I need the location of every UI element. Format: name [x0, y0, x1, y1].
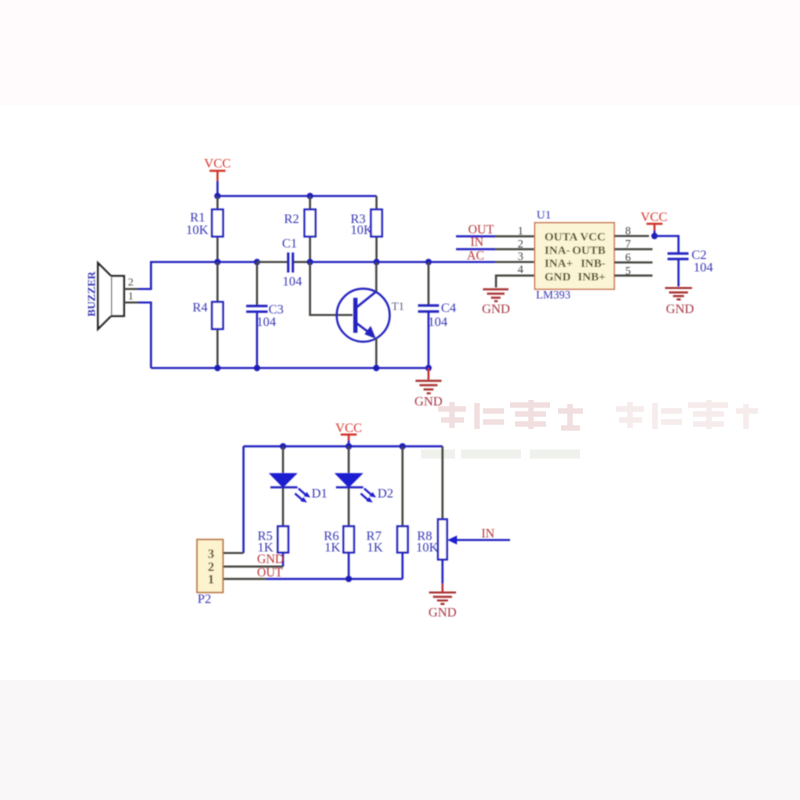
wire left vertical to P2 pin3 [242, 446, 244, 553]
wire buzzer pin2 to AC row [138, 262, 257, 289]
node junction R4 bottom [214, 365, 220, 371]
wire P2 pin3 stub [224, 552, 244, 554]
svg-text:BUZZER: BUZZER [86, 270, 98, 316]
svg-text:OUTA: OUTA [545, 229, 579, 243]
ground GND (top section) [414, 368, 442, 409]
wire collector of T1 [375, 262, 377, 292]
svg-text:OUT: OUT [257, 566, 283, 580]
svg-text:104: 104 [283, 273, 303, 288]
wire base of T1 [310, 262, 353, 315]
svg-text:GND: GND [545, 270, 571, 284]
node junction C4 bottom [425, 365, 431, 371]
svg-text:AC: AC [467, 248, 484, 262]
svg-text:P2: P2 [198, 591, 212, 606]
wire IN (pin2) [456, 235, 535, 249]
svg-text:1: 1 [518, 225, 524, 237]
svg-text:R4: R4 [193, 300, 209, 315]
svg-text:VCC: VCC [580, 229, 606, 243]
resistor R2 [284, 196, 316, 262]
svg-text:IN: IN [470, 235, 483, 249]
wire pin5 stub [614, 275, 652, 277]
svg-text:8: 8 [625, 225, 631, 237]
connector P2 [197, 540, 223, 606]
svg-text:10K: 10K [416, 539, 439, 554]
svg-text:7: 7 [625, 238, 631, 250]
svg-text:D1: D1 [312, 485, 328, 500]
node junction C3 bottom [254, 365, 260, 371]
svg-text:1: 1 [128, 291, 134, 303]
wire OUT rail (P2 pin1) [224, 578, 403, 580]
wire buzzer pin1 to bottom rail [138, 303, 151, 369]
wire OUT (pin1) [456, 222, 535, 236]
buzzer LS1 [86, 263, 138, 329]
svg-text:2: 2 [128, 277, 134, 289]
svg-text:LM393: LM393 [536, 289, 571, 301]
wire AC row middle [310, 261, 495, 263]
resistor R6 [324, 526, 354, 579]
svg-text:1K: 1K [367, 539, 384, 554]
svg-text:1: 1 [208, 572, 215, 587]
node junction C1-C3 [254, 259, 260, 265]
node junction D2-VCC [346, 443, 352, 449]
node junction R7 top [399, 443, 405, 449]
wire emitter of T1 [375, 338, 377, 368]
resistor R7 [366, 446, 408, 579]
svg-text:D2: D2 [378, 485, 394, 500]
svg-text:VCC: VCC [204, 156, 231, 171]
svg-text:6: 6 [625, 252, 631, 264]
ground GND (R8) [428, 584, 456, 620]
wire pin4 to ground [496, 276, 535, 288]
potentiometer R8 [416, 446, 510, 583]
svg-text:INA+: INA+ [545, 256, 574, 270]
power symbol VCC (bottom section) [335, 420, 362, 447]
svg-text:GND: GND [257, 552, 284, 566]
capacitor C4 [418, 262, 457, 368]
svg-text:INB+: INB+ [578, 270, 606, 284]
svg-text:OUT: OUT [468, 222, 494, 236]
svg-text:IN: IN [481, 526, 494, 540]
svg-text:3: 3 [518, 251, 524, 263]
node junction R2 top [307, 193, 313, 199]
node junction C1-R2-base [307, 259, 313, 265]
node junction pin8-VCC [651, 233, 657, 239]
LED D2 [336, 446, 394, 526]
op-amp U1 LM393 [535, 208, 615, 302]
wire pin6 stub [614, 261, 652, 263]
node junction emitter bottom [373, 365, 379, 371]
svg-text:T1: T1 [392, 301, 405, 313]
svg-text:104: 104 [694, 259, 714, 274]
svg-text:U1: U1 [537, 208, 552, 222]
capacitor C3 [246, 262, 283, 368]
svg-text:C4: C4 [441, 300, 457, 315]
node junction R1 top [214, 193, 220, 199]
svg-text:GND: GND [414, 394, 442, 409]
node junction C4-AC [425, 259, 431, 265]
svg-text:1K: 1K [325, 539, 342, 554]
resistor R3 [351, 196, 383, 262]
transistor T1 [337, 289, 405, 342]
resistor R5 [258, 526, 289, 566]
wire pin7 stub [614, 248, 652, 250]
ground GND (pin4) [482, 289, 510, 316]
svg-text:OUTB: OUTB [572, 243, 606, 257]
node junction R6 bottom [346, 576, 352, 582]
wire VCC top rail [218, 195, 377, 197]
wire pin8 to C2 [655, 236, 679, 253]
capacitor C2 [668, 247, 714, 287]
svg-text:GND: GND [482, 301, 510, 316]
svg-text:VCC: VCC [335, 420, 362, 435]
node junction R1-R4 [214, 259, 220, 265]
svg-text:C1: C1 [282, 235, 297, 250]
node junction R3-collector [373, 259, 379, 265]
wire pin8 [614, 235, 649, 237]
svg-text:10K: 10K [186, 222, 209, 237]
LED D1 [270, 446, 327, 526]
wire bottom rail (top section) [151, 367, 429, 369]
resistor R1 [186, 196, 223, 262]
svg-text:VCC: VCC [641, 209, 668, 224]
svg-text:GND: GND [428, 605, 456, 620]
wire P2 pin2 (GND) [224, 566, 284, 568]
node junction D1 top [280, 443, 286, 449]
svg-text:INB-: INB- [581, 256, 606, 270]
watermark [421, 400, 758, 454]
svg-text:104: 104 [428, 314, 448, 329]
svg-text:10K: 10K [351, 222, 374, 237]
svg-text:104: 104 [257, 314, 277, 329]
wire top rail (bottom section) [244, 445, 443, 447]
capacitor C1 [257, 235, 310, 288]
power symbol VCC (at pin 8) [641, 209, 668, 236]
svg-text:INA-: INA- [545, 243, 571, 257]
ground GND (C2) [665, 288, 694, 316]
power symbol VCC (top section) [204, 156, 231, 197]
svg-text:5: 5 [625, 265, 631, 277]
resistor R4 [193, 262, 224, 368]
svg-text:R2: R2 [284, 211, 299, 226]
svg-text:4: 4 [518, 264, 524, 276]
svg-text:2: 2 [518, 238, 524, 250]
svg-text:GND: GND [666, 301, 694, 316]
wire AC (pin3) [467, 248, 535, 262]
